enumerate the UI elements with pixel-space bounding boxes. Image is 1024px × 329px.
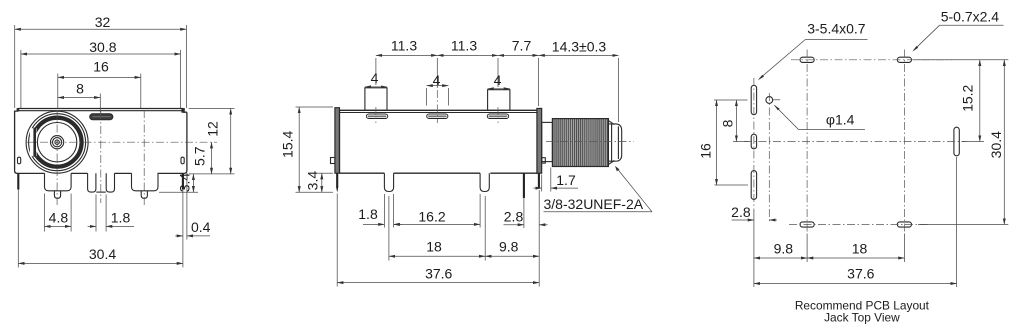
- svg-text:3/8-32UNEF-2A: 3/8-32UNEF-2A: [544, 196, 644, 212]
- leg D front view: [132, 173, 159, 191]
- label phi 1.4: [774, 105, 865, 130]
- pin D front view: [141, 191, 147, 199]
- centerline horizontal front view: [26, 141, 218, 143]
- svg-text:18: 18: [426, 239, 442, 255]
- label 3-5.4x0.7: [758, 21, 868, 81]
- leg B front view: [88, 173, 96, 192]
- top pad slot A: [800, 57, 814, 62]
- caption: [795, 299, 930, 325]
- threaded barrel side view: [552, 119, 608, 167]
- rear flange pin side view: [538, 173, 540, 188]
- hole center tick: [773, 99, 780, 101]
- svg-text:3-5.4x0.7: 3-5.4x0.7: [807, 21, 866, 37]
- slot 1 side view: [366, 114, 387, 119]
- rear flange side view: [537, 108, 542, 173]
- svg-text:12: 12: [204, 121, 220, 137]
- svg-text:φ1.4: φ1.4: [826, 111, 855, 127]
- svg-text:5-0.7x2.4: 5-0.7x2.4: [941, 8, 1000, 24]
- centerline top row: [791, 59, 952, 61]
- svg-text:2.8: 2.8: [504, 208, 524, 224]
- centerline slot 1: [375, 107, 377, 123]
- centerline slot 2: [436, 90, 438, 123]
- dim chain 11.3 11.3 7.7 14.3: [376, 38, 619, 122]
- svg-text:3.4: 3.4: [304, 171, 320, 191]
- tab 1 side view: [365, 88, 387, 111]
- left pad slot S3: [751, 171, 756, 200]
- label 5-0.7x2.4: [912, 8, 1003, 51]
- ear on rear flange: [542, 158, 546, 163]
- svg-text:30.8: 30.8: [89, 39, 116, 55]
- slot 2 side view: [427, 114, 448, 119]
- dim 18 pcb: [807, 234, 904, 263]
- svg-text:0.4: 0.4: [191, 219, 211, 235]
- svg-text:11.3: 11.3: [391, 38, 417, 54]
- centerline bottom row: [789, 224, 929, 226]
- dim 30.4 front: [18, 246, 183, 264]
- centerline column A: [806, 50, 808, 234]
- dim 1.8 side: [358, 194, 402, 228]
- neck side view: [542, 122, 553, 161]
- dim 4.8: [45, 194, 72, 232]
- centerline vertical right front view: [140, 74, 142, 109]
- dim 2.8 pcb: [731, 204, 777, 220]
- centerline middle row: [744, 141, 966, 143]
- dim 1.8 front: [88, 195, 134, 232]
- svg-text:1.8: 1.8: [358, 206, 378, 222]
- flat chord on ring front view: [30, 128, 37, 156]
- svg-text:9.8: 9.8: [774, 241, 794, 257]
- ear on front flange: [331, 158, 335, 164]
- svg-text:3.4: 3.4: [177, 173, 193, 193]
- svg-text:16.2: 16.2: [418, 208, 445, 224]
- svg-text:5.7: 5.7: [191, 146, 207, 166]
- dim 8 top: [58, 80, 101, 112]
- line between legs B C: [96, 191, 106, 193]
- svg-text:37.6: 37.6: [425, 265, 452, 281]
- thread spec label: [544, 166, 653, 212]
- pin channel 1 side view: [384, 173, 393, 191]
- svg-text:16: 16: [93, 58, 109, 74]
- centerline left column: [753, 78, 755, 210]
- svg-text:Jack Top View: Jack Top View: [824, 311, 900, 325]
- dim 30.4 pcb: [918, 60, 1008, 225]
- svg-text:11.3: 11.3: [451, 38, 477, 54]
- svg-text:32: 32: [95, 14, 111, 30]
- svg-text:16: 16: [698, 143, 714, 159]
- dim 1.7 side: [534, 168, 579, 192]
- left corner pin front view: [17, 173, 19, 189]
- pin channel 2 side view: [480, 173, 489, 191]
- leg C front view: [106, 173, 114, 192]
- svg-text:15.4: 15.4: [280, 130, 296, 157]
- tab 3 side view: [488, 90, 510, 111]
- dim 0.4: [175, 176, 210, 240]
- slot 3 side view: [487, 114, 508, 119]
- straight pin side view: [523, 173, 525, 198]
- dim 37.6 pcb: [754, 157, 957, 287]
- svg-text:14.3±0.3: 14.3±0.3: [552, 39, 607, 55]
- dim 3.4 side: [304, 171, 333, 193]
- front flange pin side view: [336, 173, 338, 186]
- svg-text:37.6: 37.6: [847, 265, 874, 281]
- top slot front view: [90, 114, 113, 120]
- dim 4 slot2: [427, 72, 449, 106]
- dim 30.8: [21, 39, 181, 108]
- bottom pad slot A2: [800, 222, 814, 227]
- dim 9.8 side: [485, 190, 539, 287]
- svg-text:1.8: 1.8: [111, 209, 131, 225]
- body outline front view: [15, 108, 187, 173]
- front flange side view: [335, 108, 340, 174]
- pin A front view: [54, 191, 60, 199]
- bottom pad slot B2: [897, 222, 911, 227]
- svg-text:30.4: 30.4: [89, 246, 116, 262]
- centerline slot 3: [497, 107, 499, 123]
- svg-text:18: 18: [852, 241, 868, 257]
- right pad slot: [954, 127, 959, 156]
- svg-text:8: 8: [76, 80, 84, 96]
- centerline vertical body middle: [100, 112, 102, 204]
- dim 2.8 side: [504, 199, 548, 228]
- dim 15.4: [280, 107, 333, 192]
- hole 1.4: [766, 97, 773, 104]
- leg A front view: [45, 173, 72, 191]
- svg-text:4.8: 4.8: [49, 209, 69, 225]
- dim 32: [15, 14, 187, 108]
- dim 15.2 pcb: [914, 60, 1008, 142]
- body side view: [340, 110, 538, 173]
- centerline horizontal side view: [546, 141, 634, 143]
- svg-text:7.7: 7.7: [512, 38, 532, 54]
- dim 12: [189, 109, 235, 174]
- dim 4 tab3: [488, 72, 510, 89]
- dim 18 side: [389, 196, 485, 261]
- svg-text:30.4: 30.4: [988, 131, 1004, 158]
- centerline vertical through circle: [57, 74, 59, 109]
- svg-text:8: 8: [720, 119, 736, 127]
- dim 16: [58, 58, 141, 77]
- svg-text:4: 4: [371, 70, 379, 86]
- dim 5.7: [191, 142, 211, 174]
- dim 3.4 front: [159, 173, 198, 193]
- connector barrel circles front view: [26, 111, 88, 173]
- svg-text:9.8: 9.8: [499, 239, 519, 255]
- barrel tip cap side view: [608, 121, 614, 125]
- dim 4 tab1: [365, 70, 387, 87]
- top pad slot B: [897, 57, 911, 62]
- svg-text:4: 4: [433, 72, 441, 88]
- dim 16 pcb: [698, 100, 749, 185]
- right ear front view: [181, 157, 184, 164]
- centerline hole column: [768, 93, 770, 222]
- svg-text:15.2: 15.2: [960, 84, 976, 111]
- left pad slot S1: [751, 85, 756, 114]
- svg-text:2.8: 2.8: [731, 204, 751, 220]
- dim 9.8 pcb: [754, 210, 807, 287]
- right corner pin front view: [182, 173, 184, 189]
- dim 8 pcb: [714, 100, 749, 142]
- svg-text:1.7: 1.7: [556, 172, 576, 188]
- dim 16.2: [394, 194, 481, 228]
- left pad slot S2: [751, 134, 756, 149]
- dim 37.6 side: [337, 194, 539, 287]
- centerline column B: [903, 50, 905, 234]
- left ear front view: [18, 157, 21, 164]
- svg-text:4: 4: [494, 72, 502, 88]
